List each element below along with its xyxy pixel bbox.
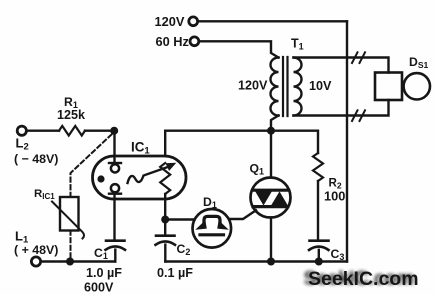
- svg-text:100: 100: [324, 189, 345, 204]
- resistor R2: [313, 153, 323, 181]
- lamp gas dot: [97, 175, 104, 182]
- svg-text:10V: 10V: [309, 79, 332, 93]
- Q1 top bar: [253, 189, 288, 192]
- terminal L1: [31, 257, 40, 266]
- svg-text:1.0 µF: 1.0 µF: [86, 266, 122, 280]
- svg-text:( − 48V): ( − 48V): [14, 152, 58, 166]
- Q1 left triangle: [255, 192, 271, 206]
- wire photoresistor bottom: [164, 194, 166, 220]
- Q1 bottom bar: [253, 205, 288, 208]
- node C3 bottom: [315, 258, 323, 266]
- transformer core: [283, 57, 288, 116]
- transformer T1 secondary winding: [294, 58, 302, 116]
- capacitor C2: [164, 220, 166, 236]
- lamp top electrode: [109, 162, 121, 164]
- wire IC1 photoresistor top: [165, 131, 271, 156]
- wire R1 to node: [85, 129, 115, 131]
- D1 bottom bar: [200, 233, 224, 236]
- svg-text:120V: 120V: [155, 14, 185, 29]
- svg-text:125k: 125k: [57, 108, 86, 122]
- photoresistor RIC1 box: [60, 197, 79, 231]
- terminal 120V: [189, 17, 198, 26]
- wire node to D1: [165, 218, 194, 220]
- svg-text:120V: 120V: [238, 79, 268, 93]
- svg-text:0.1 µF: 0.1 µF: [157, 266, 193, 280]
- node primary/Q1/R2 junction: [267, 127, 275, 135]
- wire primary bottom lead: [271, 116, 279, 131]
- wire node to R2: [271, 131, 318, 153]
- node R1/lamp junction: [110, 127, 118, 135]
- node C2 top: [161, 216, 169, 224]
- D1 right arrowhead: [217, 220, 229, 230]
- break marks top wire: [352, 52, 365, 63]
- lamp bottom electrode: [111, 184, 119, 192]
- wire Q1 bottom: [270, 218, 272, 262]
- triac Q1: [251, 178, 291, 218]
- speaker DS1 diaphragm: [404, 73, 430, 99]
- wire 120V top rail: [198, 20, 347, 22]
- break marks bottom wire: [352, 110, 365, 121]
- speaker DS1 coil box: [375, 73, 402, 101]
- wire lamp bottom to C1: [113, 194, 115, 241]
- D1 left arrowhead: [195, 220, 207, 230]
- resistor R1: [59, 126, 85, 136]
- wire D1 to Q1 gate: [230, 210, 256, 219]
- wire 60Hz to primary: [199, 41, 278, 57]
- terminal 60 Hz: [190, 37, 199, 46]
- capacitor C3: [310, 239, 329, 242]
- Q1 right triangle: [271, 191, 288, 205]
- wire R2 to C3: [317, 181, 319, 241]
- node RIC1 bottom: [66, 258, 74, 266]
- dashed link RIC1 to L1 wire: [70, 231, 72, 259]
- diac D1: [193, 209, 232, 248]
- svg-text:600V: 600V: [84, 281, 114, 294]
- wire secondary top to speaker: [294, 58, 389, 73]
- dashed link node to RIC1: [71, 135, 112, 197]
- photoresistor inside IC1: [160, 163, 170, 194]
- node Q1 bottom: [267, 258, 275, 266]
- transformer T1 primary winding: [271, 58, 279, 116]
- svg-text:SeekIC.com: SeekIC.com: [308, 268, 419, 290]
- D1 electrode bridge: [204, 216, 220, 226]
- wire Q1 top: [270, 131, 272, 178]
- wire lamp top lead: [113, 131, 115, 163]
- opto-coupler IC1 envelope: [93, 156, 187, 199]
- capacitor C1: [106, 239, 125, 242]
- wire L2 to R1: [27, 129, 59, 131]
- wire L1 to C1: [41, 260, 115, 262]
- wire bottom rail: [165, 260, 347, 262]
- wire right rail: [346, 21, 348, 261]
- light arrow: [128, 167, 168, 183]
- RIC1 arrow: [52, 202, 84, 239]
- svg-text:60 Hz: 60 Hz: [156, 34, 189, 49]
- svg-text:( + 48V): ( + 48V): [14, 243, 58, 257]
- wire secondary bottom to speaker: [294, 100, 389, 116]
- terminal L2: [17, 126, 26, 135]
